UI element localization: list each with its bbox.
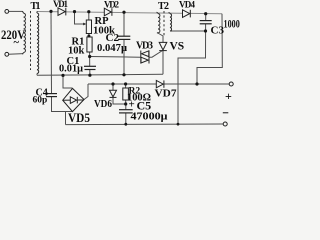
svg-text:10k: 10k [68, 46, 85, 57]
svg-text:60p: 60p [33, 96, 48, 106]
svg-text:0.01μ: 0.01μ [59, 64, 83, 75]
svg-text:VD1: VD1 [53, 0, 69, 9]
svg-text:+: + [129, 99, 135, 111]
svg-text:VD6: VD6 [94, 98, 112, 110]
svg-text:VD7: VD7 [155, 88, 178, 100]
svg-text:1000μ: 1000μ [224, 19, 241, 31]
svg-text:~: ~ [14, 38, 20, 49]
svg-text:+: + [225, 89, 232, 103]
svg-text:T1: T1 [31, 1, 41, 12]
svg-text:C3: C3 [211, 25, 225, 37]
svg-text:0.047μ: 0.047μ [97, 43, 127, 54]
svg-text:VD3: VD3 [136, 41, 153, 52]
svg-text:VD2: VD2 [104, 0, 120, 10]
svg-text:VD4: VD4 [179, 0, 196, 10]
svg-text:VD5: VD5 [68, 111, 90, 125]
svg-text:T2: T2 [158, 1, 169, 12]
svg-text:VS: VS [170, 41, 185, 53]
svg-text:47000μ: 47000μ [131, 111, 169, 123]
